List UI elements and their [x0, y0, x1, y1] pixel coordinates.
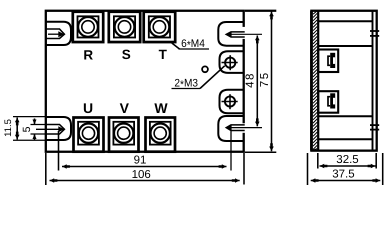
bottom-right ear with slot — [218, 116, 243, 141]
svg-text:V: V — [120, 100, 130, 116]
terminal R — [73, 12, 103, 42]
svg-text:37.5: 37.5 — [332, 169, 354, 181]
seam top — [318, 20, 372, 22]
svg-text:R: R — [83, 47, 93, 62]
clip ticks top — [370, 30, 379, 32]
leader 2*M3 — [172, 88, 201, 90]
svg-text:48: 48 — [245, 72, 257, 88]
svg-text:T: T — [159, 47, 168, 62]
terminal T — [144, 12, 176, 42]
bottom-left ear slot — [46, 125, 64, 135]
top-left slot arrow — [48, 33, 59, 35]
corner step line / dim 91 right extension — [230, 131, 232, 171]
bottom-left mounting ear — [46, 117, 71, 140]
dim 75 extension lines — [245, 10, 276, 12]
screw 1 — [330, 53, 335, 68]
hatch — [313, 11, 317, 150]
dim 11.5 extension lines — [13, 116, 46, 118]
dim 37.5 line — [311, 180, 381, 182]
terminal W — [146, 118, 176, 152]
seam bottom — [318, 138, 372, 140]
M3 hole 2 — [225, 96, 235, 106]
svg-text:75: 75 — [259, 71, 271, 87]
bottom-left slot lines extended left — [31, 124, 47, 126]
dim 5 arrows — [34, 119, 36, 125]
terminal V — [109, 118, 139, 152]
dim 32.5 extension lines — [317, 153, 319, 169]
svg-text:91: 91 — [134, 155, 147, 167]
bottom-right ear slot — [226, 125, 244, 131]
mid line — [318, 115, 372, 117]
edge break at slot mouth — [242, 123, 245, 133]
dim 91 line — [62, 166, 227, 168]
svg-text:W: W — [154, 100, 168, 116]
bottom-right slot arrow + extension to dim 48 — [231, 127, 263, 129]
side view outline — [311, 11, 376, 151]
dim 37.5 extension lines — [307, 153, 309, 185]
dim 48 line — [256, 36, 258, 127]
svg-text:106: 106 — [132, 169, 151, 181]
base plate right line — [317, 11, 319, 151]
svg-text:6*M4: 6*M4 — [181, 38, 205, 52]
inner right wall line — [372, 11, 374, 151]
base plate left edge thick — [310, 11, 313, 151]
clip ticks bottom — [370, 124, 379, 126]
svg-text:5: 5 — [21, 126, 33, 132]
SSR front view body — [46, 11, 244, 152]
top-right slot arrow + extension to dim 48 — [231, 33, 263, 35]
leader 6*M4 — [172, 43, 180, 49]
seam 2 — [318, 45, 372, 47]
M3 boss 2 — [220, 90, 244, 114]
dim 106 line — [50, 180, 240, 182]
screw 2 — [330, 93, 335, 108]
svg-text:11.5: 11.5 — [3, 119, 14, 137]
svg-text:2*M3: 2*M3 — [174, 78, 198, 92]
bottom-left slot arrow — [36, 128, 59, 130]
terminal bump 2 — [318, 91, 338, 113]
dim 91 extension line left — [58, 131, 60, 171]
terminal S — [109, 12, 140, 42]
top-right ear slot — [226, 32, 244, 37]
indicator LED circle — [202, 66, 208, 72]
terminal bump 1 — [318, 50, 338, 73]
svg-text:U: U — [83, 100, 93, 116]
svg-text:S: S — [122, 47, 131, 62]
edge break at slot mouth — [242, 27, 245, 39]
top-left mounting ear — [46, 22, 71, 45]
terminal U — [74, 118, 104, 152]
dim 75 line — [271, 12, 273, 152]
M3 hole 1 — [225, 58, 235, 68]
dim 32.5 line — [320, 165, 376, 167]
M3 boss 1 — [220, 51, 244, 73]
top-left ear slot — [46, 29, 64, 39]
dim 106 extension lines — [45, 153, 47, 185]
dim 11.5 line and arrows — [16, 118, 18, 140]
svg-text:32.5: 32.5 — [336, 154, 358, 166]
top-right ear with slot — [218, 22, 243, 46]
